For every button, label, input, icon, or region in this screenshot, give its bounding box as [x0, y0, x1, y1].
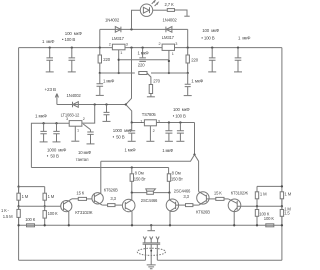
node U3 out / C11: [55, 122, 57, 124]
resistor R20 100K: [266, 224, 274, 227]
node +23V / C8: [105, 103, 107, 105]
node T1 center: [150, 250, 152, 252]
svg-text:1 мкФ: 1 мкФ: [162, 148, 174, 153]
transformer T1 core: [143, 243, 161, 244]
node U1 adj / divider: [118, 72, 120, 74]
svg-text:220: 220: [138, 62, 145, 67]
ground C10: [40, 141, 48, 143]
wire C9 lead from pin2 node: [83, 124, 90, 130]
node L2 / R6: [131, 166, 133, 168]
transistor Q6 symbol: [228, 199, 237, 211]
ground transformer center: [147, 265, 156, 269]
wire left frame vertical: [18, 48, 20, 261]
node rail/C1: [49, 46, 51, 48]
node speaker right: [168, 191, 170, 193]
node U4 out / C14: [179, 121, 181, 123]
wire U3 output to left corner: [31, 123, 69, 167]
wire U1 output vertical x=131: [126, 48, 132, 105]
capacitor C6 1uF: [139, 48, 146, 62]
resistor R1 2.7K: [167, 9, 174, 12]
svg-text:220: 220: [191, 57, 198, 62]
wire 12V bus L2: [31, 167, 168, 169]
wire R4 jog down: [147, 73, 151, 85]
wire R18 leads: [281, 199, 283, 207]
capacitor C14 1uF: [177, 123, 184, 141]
ground C12: [128, 140, 136, 142]
ground C3: [208, 71, 216, 73]
svg-text:1N4002: 1N4002: [163, 18, 178, 23]
ground C8: [103, 120, 111, 122]
wire Q4 emitter: [169, 211, 171, 225]
wire U4 output: [156, 123, 194, 155]
wire right frame vertical: [281, 48, 283, 261]
svg-text:3,3: 3,3: [110, 196, 116, 201]
node rail/Q1e: [68, 224, 70, 226]
node R2 / adj wire: [99, 72, 101, 74]
resistor R21 1M-1.5: [280, 210, 283, 217]
svg-text:2,7 К: 2,7 К: [165, 2, 175, 7]
svg-text:15 К: 15 К: [214, 191, 222, 196]
wire U3 gnd pin: [74, 126, 76, 141]
svg-text:270: 270: [153, 78, 160, 83]
svg-text:1 мкФ: 1 мкФ: [191, 79, 203, 84]
wire R7 bottom lead: [168, 181, 170, 192]
svg-text:• 100 В: • 100 В: [201, 36, 214, 41]
wire LT input drop: [82, 105, 95, 124]
svg-text:• 50 В: • 50 В: [113, 135, 125, 140]
node R3 / adj wire: [187, 72, 189, 74]
capacitor C7 1uF: [185, 73, 191, 95]
svg-text:1: 1: [172, 52, 174, 56]
svg-text:TS7805: TS7805: [142, 112, 157, 117]
svg-text:100 мкФ: 100 мкФ: [65, 31, 83, 36]
node speaker left: [131, 191, 133, 193]
svg-text:1 К -: 1 К -: [1, 208, 9, 213]
node base bus left / R9: [44, 205, 46, 207]
svg-text:+23 В: +23 В: [45, 87, 56, 92]
ground C2: [68, 71, 76, 73]
wire R17 bottom lead: [256, 199, 258, 207]
ground R5: [147, 96, 155, 98]
node rail/left frame: [17, 224, 19, 226]
LED HL1 triangle: [143, 7, 149, 13]
svg-text:LM317: LM317: [112, 36, 125, 41]
svg-text:1 мкФ: 1 мкФ: [103, 78, 115, 83]
node U2 adj / divider: [168, 72, 170, 74]
ground C14: [176, 140, 184, 142]
transistor Q2 body: [92, 193, 103, 204]
capacitor C9 10uF tantalum: [87, 130, 93, 144]
wire R9 bottom lead: [44, 200, 46, 206]
node U2 adj / interconnect: [168, 60, 170, 62]
wire adj divider bus right: [151, 72, 188, 74]
svg-text:2: 2: [109, 42, 111, 46]
node base bus left / R8: [17, 205, 19, 207]
wire R5 to ground: [150, 94, 152, 97]
wire R13 to Q2 base: [87, 198, 95, 200]
wire speaker bus: [132, 192, 170, 194]
svg-text:КТ3102Ж: КТ3102Ж: [231, 191, 248, 196]
svg-text:LT1083-12: LT1083-12: [61, 112, 80, 117]
wire U4 gnd pin: [149, 126, 151, 141]
wire bottom right: [157, 259, 282, 261]
capacitor C3 100uF 100V: [209, 48, 216, 72]
svg-text:150 Вт: 150 Вт: [134, 176, 146, 181]
wire diode rail right segment: [132, 29, 188, 47]
resistor R5 270: [149, 85, 152, 94]
transistor Q3 symbol: [125, 200, 132, 211]
node rail/R19: [256, 224, 258, 226]
capacitor C8 1000uF 50V: [104, 105, 110, 122]
svg-text:• 100 В: • 100 В: [173, 113, 186, 118]
svg-text:150 Вт: 150 Вт: [171, 176, 183, 181]
diode VD3 1N4002 (points left): [73, 102, 79, 108]
resistor R6 8 Ом 150 Вт: [130, 174, 133, 182]
wire diode rail left segment: [100, 29, 132, 47]
resistor R3 220: [186, 55, 189, 63]
resistor R13 15K: [78, 197, 86, 200]
wire Q2 emitter to R14: [102, 204, 107, 206]
power +23V arrow: [55, 94, 58, 105]
node Y junction +23V: [125, 103, 127, 105]
svg-text:1 мкФ: 1 мкФ: [138, 51, 150, 56]
op-amp U3 LT1083 body: [69, 121, 82, 127]
op-amp U4 TS7805 body: [144, 120, 156, 126]
svg-text:100 мкФ: 100 мкФ: [202, 28, 220, 33]
ground emitter rail: [147, 230, 155, 232]
capacitor C12 1uF: [128, 123, 135, 141]
node rail/right frame: [281, 224, 283, 226]
svg-text:10 мкФ: 10 мкФ: [78, 150, 92, 155]
svg-text:15 К: 15 К: [76, 190, 84, 195]
wire R16 to Q6 collector: [224, 198, 228, 200]
wire R8 leads: [18, 187, 20, 207]
wire fork left diagonal + bus L1: [101, 155, 195, 194]
capacitor C2 100uF 100V: [69, 48, 76, 72]
transformer T1 center tap: [150, 244, 152, 264]
svg-text:КТ3102Ж: КТ3102Ж: [75, 210, 92, 215]
transformer T1 tap arrows: [143, 237, 159, 243]
wire R11 leads: [44, 206, 46, 225]
transistor Q2 symbol: [94, 193, 102, 205]
capacitor C13 1uF: [165, 123, 172, 141]
node rail/Q6e: [233, 224, 235, 226]
svg-text:3,3: 3,3: [183, 194, 189, 199]
node rail/C3: [211, 46, 213, 48]
wire Q6 emitter: [233, 211, 235, 225]
wire R15 to Q5 emitter: [193, 204, 199, 206]
node base bus right / R17: [256, 205, 258, 207]
ground LED return: [184, 15, 189, 17]
ground C1: [46, 71, 54, 73]
svg-text:1 мкФ: 1 мкФ: [42, 39, 55, 44]
resistor R14 3.3: [108, 204, 115, 207]
svg-text:1 мкФ: 1 мкФ: [125, 147, 137, 152]
resistor R11 100K: [43, 211, 46, 219]
node rail/Q3e: [131, 224, 133, 226]
transistor Q5 body: [197, 192, 209, 204]
svg-text:3: 3: [175, 42, 177, 46]
resistor R19 100K: [255, 210, 258, 217]
svg-text:100 мкФ: 100 мкФ: [173, 107, 190, 112]
ground C13: [165, 140, 173, 142]
capacitor C11 1000uF 50V: [53, 123, 59, 141]
wire Q1 collector to R13: [72, 198, 79, 200]
wire R6 bottom lead: [131, 181, 133, 192]
capacitor C10 1000uF 50V: [40, 123, 46, 141]
svg-text:1 М: 1 М: [48, 194, 55, 199]
node rail/C2: [71, 46, 73, 48]
wire rail to R3 to node: [187, 48, 189, 73]
diode VD2 1N4002 (points left): [166, 27, 172, 33]
svg-text:100 К: 100 К: [48, 211, 59, 216]
wire Q3 collector: [131, 193, 133, 200]
transistor Q3 body: [122, 199, 135, 212]
svg-text:• 50 В: • 50 В: [47, 153, 59, 158]
wire TS input: [132, 122, 145, 124]
wire Q5 base to R16: [206, 198, 215, 200]
resistor R10 1K-1.5M: [17, 209, 20, 217]
wire R1 to chassis: [175, 10, 188, 16]
svg-text:тантал: тантал: [76, 157, 89, 162]
ground C4: [234, 71, 242, 73]
wire Q6 base bus: [237, 205, 282, 207]
node rail/C4: [237, 46, 239, 48]
transformer T1 toroid outline: [137, 248, 165, 255]
wire R19 leads: [256, 206, 258, 225]
wire bottom left: [19, 259, 146, 261]
ground C9: [87, 143, 95, 145]
wire main positive rail (top): [19, 47, 282, 49]
svg-text:1 мкФ: 1 мкФ: [35, 113, 47, 118]
resistor R17 1M: [255, 192, 258, 199]
transistor Q1 body: [61, 201, 72, 212]
svg-text:100 К: 100 К: [264, 216, 275, 221]
svg-text:1: 1: [77, 129, 79, 133]
ground U3 pin1: [71, 140, 79, 142]
resistor R16 15K: [216, 197, 224, 200]
wire R7 top lead: [168, 168, 170, 174]
node left rail/bias top: [17, 185, 19, 187]
wire Q4 base from R15: [176, 204, 186, 206]
node diode rail junction: [130, 28, 132, 30]
svg-text:2SC4466: 2SC4466: [174, 188, 191, 193]
svg-text:1 М: 1 М: [260, 192, 267, 197]
node rail/gnd stub: [150, 224, 152, 226]
wire R14 to Q3 base: [115, 204, 125, 206]
wire Q3 emitter: [131, 211, 133, 225]
node TS in / C12: [131, 121, 133, 123]
svg-text:1: 1: [120, 51, 122, 55]
node rail/Q4e: [169, 224, 171, 226]
wire Q1 emitter: [68, 212, 70, 226]
svg-text:2: 2: [159, 42, 161, 46]
transistor Q6 body: [228, 199, 241, 212]
resistor R7 8 Ом 150 Вт: [167, 174, 170, 182]
node 5V fork: [193, 153, 195, 155]
wire Q4 collector: [168, 193, 170, 200]
wire bias top: [19, 187, 45, 194]
wire right bias top: [257, 186, 282, 191]
resistor R4 220: [139, 72, 147, 75]
node right rail/bias top: [281, 185, 283, 187]
wire Y to TS input: [126, 105, 132, 123]
resistor R18 1M: [280, 192, 283, 199]
svg-text:LM317: LM317: [162, 35, 175, 40]
node rail / C6: [141, 46, 143, 48]
wire emitter rail: [19, 224, 282, 226]
svg-text:220: 220: [103, 57, 110, 62]
wire LED anode riser: [132, 10, 141, 29]
svg-text:1000 мкФ: 1000 мкФ: [47, 147, 67, 152]
svg-text:8 Ом: 8 Ом: [135, 171, 144, 176]
wire U1 adj pin: [118, 50, 120, 73]
svg-text:8 Ом: 8 Ом: [172, 171, 181, 176]
node U4 out / C13: [168, 121, 170, 123]
svg-text:2: 2: [83, 117, 85, 121]
op-amp U2 LM317 body: [162, 44, 174, 50]
wire adj interconnect: [119, 59, 169, 61]
svg-text:КТ626В: КТ626В: [104, 187, 118, 192]
wire R6 top lead: [131, 168, 133, 174]
svg-text:1.5 М: 1.5 М: [3, 214, 13, 219]
svg-text:1: 1: [140, 119, 142, 123]
ground U4 pin2: [146, 140, 154, 142]
resistor R9 1M: [43, 193, 46, 200]
svg-text:2SC4466: 2SC4466: [141, 198, 158, 203]
ground C7: [184, 95, 192, 97]
wire Q1 base bus: [19, 205, 64, 207]
wire +23V feed: [57, 104, 126, 106]
wire rail to R2 to node: [99, 48, 101, 73]
diode VD1 1N4002: [115, 27, 121, 33]
transistor Q4 symbol: [169, 200, 175, 211]
transistor Q5 symbol: [199, 192, 207, 206]
ground C11: [53, 141, 61, 143]
svg-text:КТ626В: КТ626В: [196, 210, 210, 215]
node rail/R11: [44, 224, 46, 226]
node +23V / LT input tap: [94, 103, 96, 105]
svg-text:3: 3: [126, 42, 128, 46]
resistor R15 3.3: [186, 204, 193, 207]
wire LED cathode to R1: [153, 9, 167, 11]
wire ground stub: [150, 225, 152, 230]
ground C5: [96, 94, 104, 96]
svg-text:100 К: 100 К: [25, 217, 36, 222]
LED HL1 light arrows: [152, 1, 158, 7]
speaker BA1 horn: [146, 189, 156, 191]
capacitor C5 1uF: [97, 73, 104, 95]
wire U2 adj pin: [168, 50, 170, 73]
transformer T1 right winding lead: [156, 244, 158, 260]
resistor R8 1M: [17, 193, 20, 200]
node U3 out / C10: [42, 122, 44, 124]
node base bus right / R18: [281, 205, 283, 207]
LED HL1 body: [140, 4, 152, 16]
svg-text:2: 2: [153, 129, 155, 133]
node VD2 cathode / rail: [187, 46, 189, 48]
wire fork right diagonal: [195, 155, 199, 192]
capacitor C1 1uF: [46, 48, 53, 72]
speaker BA1 body: [147, 191, 154, 194]
svg-text:1.5: 1.5: [284, 210, 290, 215]
svg-text:1 М: 1 М: [285, 192, 292, 197]
node diode rail / rail: [99, 46, 101, 48]
svg-text:1 мкФ: 1 мкФ: [238, 36, 251, 41]
svg-text:1N4002: 1N4002: [67, 93, 82, 98]
transformer T1 left winding lead: [145, 244, 147, 260]
svg-text:3: 3: [66, 117, 68, 121]
node U1 adj / interconnect: [118, 59, 120, 61]
resistor R12 100K: [27, 224, 35, 227]
svg-text:• 100 В: • 100 В: [62, 37, 75, 42]
resistor R2 220: [98, 55, 101, 63]
transistor Q1 symbol: [64, 199, 72, 212]
svg-text:1 М: 1 М: [22, 194, 29, 199]
capacitor C4 1uF: [235, 48, 242, 72]
wire R10 leads: [18, 206, 20, 225]
svg-text:1N4002: 1N4002: [105, 18, 120, 23]
wire R21 leads: [281, 206, 283, 225]
op-amp U1 LM317 body: [112, 44, 125, 50]
transistor Q4 body: [166, 199, 178, 211]
wire adj divider bus: [100, 72, 135, 74]
node rail / U1 in vertical: [130, 46, 132, 48]
